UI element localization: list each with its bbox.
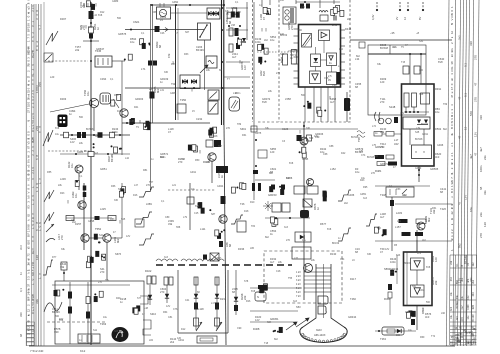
waveform arc <box>46 238 55 242</box>
svg-text:100n: 100n <box>160 156 166 159</box>
wire <box>226 7 248 9</box>
resistor <box>219 241 223 247</box>
svg-text:GR95: GR95 <box>231 7 238 10</box>
svg-text:GR303: GR303 <box>135 97 144 101</box>
svg-text:R17: R17 <box>286 177 291 180</box>
svg-text:8k2: 8k2 <box>269 172 274 175</box>
svg-text:GR11: GR11 <box>190 171 197 174</box>
svg-text:560: 560 <box>298 29 303 32</box>
svg-text:33k: 33k <box>168 222 173 226</box>
IC pins right <box>341 30 346 84</box>
svg-text:BC548: BC548 <box>86 128 94 131</box>
switch box <box>198 23 211 40</box>
svg-text:560: 560 <box>456 279 459 284</box>
CRT funnel <box>300 327 347 343</box>
svg-text:BF199: BF199 <box>30 262 34 274</box>
svg-text:S45: S45 <box>415 131 420 134</box>
svg-text:D257: D257 <box>75 222 82 226</box>
module dashed boundary inner <box>278 0 280 122</box>
svg-text:K12: K12 <box>80 349 86 353</box>
svg-text:1n: 1n <box>19 271 23 275</box>
switch contact <box>200 25 207 37</box>
coil step <box>140 296 148 304</box>
long wire <box>125 87 250 89</box>
svg-text:4u7: 4u7 <box>270 260 275 264</box>
svg-text:2k2: 2k2 <box>344 202 349 205</box>
svg-text:330: 330 <box>367 253 372 256</box>
svg-text:R64: R64 <box>163 311 168 314</box>
svg-text:47: 47 <box>474 152 478 156</box>
transistor T604 <box>417 222 425 230</box>
wire <box>416 230 418 251</box>
sine symbol <box>208 61 214 64</box>
svg-text:560: 560 <box>374 155 379 158</box>
fold line <box>250 128 358 130</box>
svg-text:R56: R56 <box>114 94 119 97</box>
IC diagonal detector <box>302 34 312 48</box>
svg-text:68: 68 <box>19 333 23 337</box>
output amplifier <box>414 288 420 294</box>
resistor <box>215 277 219 285</box>
transistor T205 <box>81 234 89 242</box>
wire rail <box>149 4 151 190</box>
node <box>189 4 191 6</box>
svg-text:10u: 10u <box>70 163 74 168</box>
diode <box>300 235 304 239</box>
left margin bottom grid <box>27 322 35 345</box>
side parts <box>258 44 269 54</box>
node <box>418 169 420 171</box>
right margin outer text <box>474 55 488 238</box>
right margin sparse text <box>458 35 474 283</box>
svg-text:T348: T348 <box>380 193 386 197</box>
diamond pot <box>210 253 219 261</box>
svg-text:330: 330 <box>450 10 454 18</box>
node <box>304 1 306 3</box>
svg-text:L90: L90 <box>441 312 446 315</box>
svg-text:10u: 10u <box>191 188 196 191</box>
svg-text:12V: 12V <box>126 235 131 238</box>
svg-text:8k2: 8k2 <box>116 238 120 243</box>
svg-text:6V8: 6V8 <box>30 75 34 85</box>
svg-text:12V: 12V <box>255 318 260 322</box>
svg-text:D562: D562 <box>435 127 442 131</box>
CRT drive spine <box>303 122 305 300</box>
node <box>90 40 92 42</box>
svg-text:3n3: 3n3 <box>94 152 99 155</box>
wire <box>83 40 99 42</box>
wire <box>113 99 119 108</box>
svg-text:C394: C394 <box>100 77 107 81</box>
svg-text:D83: D83 <box>110 218 115 221</box>
svg-text:S11: S11 <box>93 329 98 332</box>
svg-text:10u: 10u <box>355 170 360 174</box>
transistor T402 <box>307 179 314 186</box>
parts <box>231 183 245 193</box>
svg-text:T89: T89 <box>237 123 242 126</box>
svg-text:S691: S691 <box>240 127 247 131</box>
top distribution wire <box>150 4 224 6</box>
svg-text:L236: L236 <box>60 177 66 181</box>
resistor <box>187 197 194 204</box>
wire <box>211 161 213 183</box>
label block <box>216 166 228 173</box>
parts <box>390 270 397 276</box>
svg-text:GR95: GR95 <box>302 158 309 161</box>
svg-text:C15: C15 <box>194 212 199 215</box>
svg-text:D117: D117 <box>350 277 357 281</box>
wire <box>112 60 125 62</box>
svg-text:2 kV: 2 kV <box>296 275 301 278</box>
wire to margin <box>375 240 452 242</box>
wire <box>226 61 250 63</box>
resistor <box>194 277 198 285</box>
svg-text:30AX: 30AX <box>316 329 322 332</box>
svg-text:D232: D232 <box>220 297 227 301</box>
coupling network <box>94 234 101 244</box>
rounded module <box>229 97 240 111</box>
capacitor C140 <box>236 43 240 49</box>
connector inner <box>200 338 213 341</box>
svg-text:100n: 100n <box>467 304 470 310</box>
node <box>409 111 411 113</box>
svg-text:BC548: BC548 <box>380 46 388 50</box>
node <box>221 87 223 89</box>
svg-text:10u: 10u <box>74 193 78 198</box>
svg-text:270: 270 <box>479 233 483 238</box>
svg-text:R12: R12 <box>100 11 105 14</box>
svg-text:C89: C89 <box>165 216 170 219</box>
svg-text:S41: S41 <box>99 234 104 237</box>
svg-text:6V8: 6V8 <box>438 60 443 64</box>
diode <box>194 294 198 298</box>
svg-text:2k2: 2k2 <box>461 277 464 282</box>
node <box>223 4 225 6</box>
svg-text:1 kV: 1 kV <box>296 271 301 274</box>
svg-text:C18: C18 <box>276 270 281 273</box>
svg-text:S28: S28 <box>419 93 424 96</box>
clamp box <box>295 232 311 242</box>
IC amp cell <box>327 53 337 66</box>
wire <box>204 40 206 90</box>
svg-text:270: 270 <box>474 55 478 60</box>
svg-text:270: 270 <box>286 239 291 242</box>
node <box>413 111 415 113</box>
resistor R222 <box>108 216 116 221</box>
wire <box>250 321 296 323</box>
resistor R220 <box>66 216 74 221</box>
svg-text:D95: D95 <box>363 186 368 189</box>
parts <box>374 227 386 236</box>
resistor <box>307 135 312 141</box>
svg-text:C76: C76 <box>173 308 178 311</box>
resistor R233 <box>86 312 90 319</box>
svg-text:C86: C86 <box>130 120 135 123</box>
wire <box>69 282 71 344</box>
svg-text:12V: 12V <box>474 132 478 137</box>
rect <box>237 221 246 232</box>
resistor <box>215 303 219 310</box>
opto box 2 <box>282 203 290 212</box>
output box <box>292 247 311 259</box>
resistor R601 <box>404 93 409 107</box>
svg-text:D468: D468 <box>253 327 260 331</box>
node <box>149 122 151 124</box>
svg-text:R69: R69 <box>420 336 425 339</box>
svg-text:68: 68 <box>479 186 483 190</box>
svg-text:12V: 12V <box>166 305 171 308</box>
wire <box>224 76 250 78</box>
crt pin labels <box>296 271 301 298</box>
svg-text:GR51: GR51 <box>100 167 107 171</box>
svg-text:10u: 10u <box>55 133 60 136</box>
resistor <box>194 303 198 310</box>
deflection arrow 2 <box>286 322 297 330</box>
CRT base dots <box>302 333 346 342</box>
svg-text:S31: S31 <box>419 40 424 43</box>
wire <box>409 129 411 145</box>
svg-text:3 kV: 3 kV <box>296 279 301 282</box>
resistor R202 <box>89 27 94 33</box>
main bus wire <box>90 2 92 345</box>
svg-text:270: 270 <box>146 184 151 187</box>
bus wire lower <box>90 250 92 345</box>
resistor R223 <box>83 186 87 191</box>
svg-text:10u: 10u <box>435 110 440 114</box>
svg-text:22k: 22k <box>483 155 487 160</box>
wire <box>195 277 197 330</box>
IC op-amp <box>319 30 330 41</box>
measurement ticks <box>68 3 330 224</box>
svg-text:12V: 12V <box>243 65 247 70</box>
module beside T201 <box>100 93 111 104</box>
svg-text:270: 270 <box>82 25 86 30</box>
amp triangle box 1 <box>411 258 425 270</box>
svg-text:BF199: BF199 <box>472 314 475 322</box>
svg-text:33k: 33k <box>380 130 385 134</box>
svg-text:1n: 1n <box>316 207 320 210</box>
svg-text:T84: T84 <box>251 225 256 228</box>
resistor <box>271 185 275 190</box>
resistor R101 <box>155 26 160 32</box>
transistor T202 <box>120 109 128 117</box>
input parts <box>263 7 270 14</box>
dashed module box <box>264 251 342 303</box>
dark blob <box>344 98 350 111</box>
svg-text:D55: D55 <box>47 171 52 174</box>
svg-text:2k2: 2k2 <box>403 194 408 197</box>
wire <box>423 129 425 145</box>
dash-dot wire <box>47 321 107 323</box>
svg-text:6 kV: 6 kV <box>296 291 301 294</box>
svg-text:120: 120 <box>434 257 438 262</box>
resistor beside IC <box>291 50 296 65</box>
svg-text:34V: 34V <box>394 142 399 146</box>
transistor T203 <box>75 165 83 173</box>
svg-text:100n: 100n <box>255 40 261 44</box>
svg-text:T18: T18 <box>264 342 269 345</box>
svg-text:D12: D12 <box>181 328 186 331</box>
hybrid module H1 <box>58 115 68 128</box>
dark bars <box>252 183 255 191</box>
T202 base network <box>111 94 121 106</box>
svg-text:GR11: GR11 <box>422 133 429 136</box>
svg-text:S148: S148 <box>389 105 396 109</box>
node <box>378 330 380 332</box>
svg-text:47: 47 <box>262 17 266 20</box>
svg-text:D11: D11 <box>117 110 122 113</box>
svg-text:L157: L157 <box>395 225 401 229</box>
svg-text:270: 270 <box>461 317 464 322</box>
capacitor C602 <box>414 66 420 74</box>
transformer TR1 <box>283 7 296 24</box>
tuner parts <box>140 39 151 49</box>
resistor <box>297 135 302 141</box>
svg-text:8k2: 8k2 <box>30 32 34 42</box>
svg-text:D66: D66 <box>111 185 116 188</box>
svg-text:D336: D336 <box>238 247 245 251</box>
node <box>420 53 422 55</box>
node <box>75 153 77 155</box>
svg-text:2k2: 2k2 <box>472 279 475 284</box>
svg-text:BC548: BC548 <box>30 302 34 314</box>
component group <box>0 0 1 1</box>
svg-text:R33: R33 <box>184 53 189 56</box>
node <box>119 134 121 136</box>
svg-text:6V8: 6V8 <box>98 14 103 17</box>
svg-text:270: 270 <box>160 290 165 294</box>
svg-text:6V8: 6V8 <box>195 205 200 208</box>
divider network <box>95 251 105 260</box>
node <box>71 134 73 136</box>
wire <box>409 54 411 84</box>
parts table cell text <box>450 260 477 346</box>
wire to T205 <box>121 61 123 155</box>
rectifier box <box>403 117 430 129</box>
svg-text:68: 68 <box>35 155 39 160</box>
svg-text:R453: R453 <box>384 297 391 301</box>
CRT grid ladder <box>316 268 331 292</box>
dashed control wire <box>48 60 88 62</box>
svg-text:C99: C99 <box>237 327 242 330</box>
svg-text:BF199: BF199 <box>196 48 204 52</box>
IF strip rail <box>175 5 177 120</box>
diode <box>165 294 169 298</box>
filter box <box>294 186 305 194</box>
svg-text:L111: L111 <box>200 227 206 231</box>
resistor <box>281 185 285 190</box>
svg-text:3n3: 3n3 <box>425 315 430 319</box>
resistor R140 <box>229 28 233 36</box>
svg-text:GR565: GR565 <box>430 167 439 171</box>
rail wire <box>177 270 179 333</box>
svg-text:270: 270 <box>98 281 103 284</box>
svg-text:8k2: 8k2 <box>265 236 270 239</box>
staircase waveform <box>139 187 154 197</box>
svg-text:BF199: BF199 <box>421 123 429 126</box>
svg-text:BF199: BF199 <box>26 226 30 237</box>
inner rail <box>406 252 408 305</box>
CRT neck <box>303 264 344 327</box>
bus double line <box>221 0 223 125</box>
wire <box>171 12 208 14</box>
svg-text:3n3: 3n3 <box>467 278 470 283</box>
IC diode mark <box>314 58 319 62</box>
left edge column print <box>19 245 23 337</box>
node <box>275 217 277 219</box>
resistor R213 <box>110 132 115 138</box>
svg-text:L37: L37 <box>294 257 299 260</box>
svg-text:10u: 10u <box>461 295 464 300</box>
top-right tick marks <box>376 2 424 11</box>
svg-text:L17: L17 <box>211 302 216 305</box>
left parts of box4 <box>388 284 392 298</box>
resistor <box>306 4 310 9</box>
diode pair <box>191 79 197 84</box>
AC source box <box>206 56 217 68</box>
svg-text:GR95: GR95 <box>88 220 95 223</box>
wire to margin <box>395 203 452 205</box>
svg-text:S99: S99 <box>309 137 314 140</box>
plus marks <box>377 226 381 230</box>
svg-text:6V8: 6V8 <box>55 127 60 130</box>
waveform <box>44 190 54 202</box>
svg-text:2k2: 2k2 <box>347 18 352 21</box>
svg-text:120: 120 <box>419 69 424 72</box>
node <box>239 25 241 27</box>
svg-text:3n3: 3n3 <box>164 256 169 259</box>
svg-text:120: 120 <box>177 337 182 340</box>
resistor <box>416 219 426 224</box>
node <box>221 29 223 31</box>
svg-text:L79: L79 <box>416 127 421 130</box>
bold dashed separator <box>156 264 292 266</box>
svg-text:R16: R16 <box>246 300 251 303</box>
svg-text:47: 47 <box>458 96 462 100</box>
svg-text:L72: L72 <box>372 125 377 128</box>
svg-text:S509: S509 <box>118 187 125 191</box>
svg-text:BC548: BC548 <box>464 255 468 264</box>
svg-text:D16: D16 <box>133 194 138 197</box>
svg-text:0,1: 0,1 <box>464 93 468 97</box>
svg-text:L75: L75 <box>372 144 377 147</box>
svg-text:L58: L58 <box>231 24 236 27</box>
svg-text:S78: S78 <box>244 280 249 283</box>
svg-text:L42: L42 <box>125 157 130 160</box>
wire branch <box>121 183 123 238</box>
separator wire <box>350 39 452 41</box>
svg-text:47k: 47k <box>167 53 171 58</box>
wire <box>250 287 302 289</box>
svg-text:3n3: 3n3 <box>181 158 186 161</box>
black part <box>258 285 267 289</box>
trimmer network <box>198 202 212 214</box>
IC pins bottom <box>305 87 335 122</box>
svg-text:120: 120 <box>35 255 39 260</box>
wire rail <box>151 5 153 123</box>
svg-text:10u: 10u <box>361 177 366 180</box>
brand emblem <box>112 327 129 342</box>
svg-text:L48: L48 <box>144 307 149 310</box>
svg-text:L16: L16 <box>233 92 238 95</box>
fuse F601 <box>421 93 430 104</box>
svg-text:N: N <box>257 295 259 299</box>
svg-text:560: 560 <box>301 94 306 97</box>
wire <box>93 108 95 131</box>
svg-text:GR86: GR86 <box>77 151 84 154</box>
node <box>221 7 223 9</box>
resistor R231 <box>68 307 72 314</box>
